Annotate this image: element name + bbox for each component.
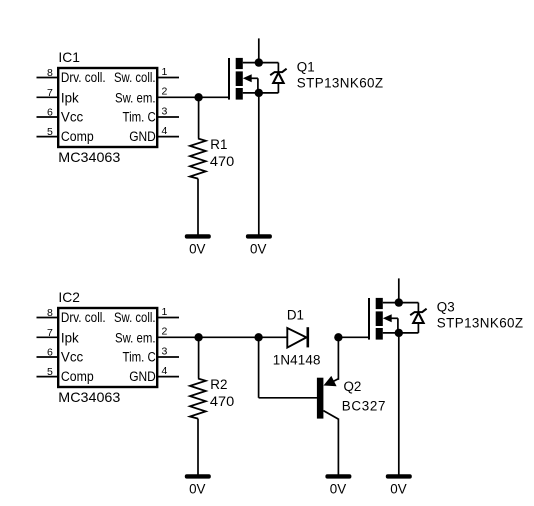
wire to Q2 base [259, 397, 317, 399]
svg-text:Sw. em.: Sw. em. [115, 330, 156, 345]
Q1 body arrow [243, 74, 252, 82]
svg-text:GND: GND [129, 129, 156, 144]
IC2 pin 1 lead [158, 317, 180, 319]
IC2 pin 4 lead [158, 376, 180, 378]
svg-text:IC1: IC1 [58, 50, 79, 65]
Q3 drain stub wire [398, 278, 400, 302]
node B junction (IC2 pin2 / R2) [194, 333, 202, 341]
svg-text:470: 470 [210, 394, 234, 409]
svg-text:GND: GND [129, 369, 156, 384]
body diode (zener) of Q3 [410, 303, 426, 333]
resistor R1 [190, 139, 206, 179]
svg-text:6: 6 [47, 107, 53, 119]
svg-text:Q1: Q1 [297, 59, 315, 74]
pin 4 lead [158, 136, 180, 138]
IC2 pin 7 lead [37, 336, 59, 338]
pin 8 lead [37, 77, 59, 79]
wire Q1 source to ground [258, 93, 260, 235]
ground bar (Q2) [325, 474, 351, 478]
svg-text:3: 3 [162, 105, 168, 117]
svg-text:6: 6 [47, 347, 53, 359]
transistor Q2 (PNP BC327) [317, 337, 339, 474]
svg-text:5: 5 [47, 126, 53, 138]
svg-text:Drv. coll.: Drv. coll. [61, 70, 106, 85]
IC U2: IC2 MC34063 box [58, 308, 157, 387]
svg-text:4: 4 [162, 365, 168, 377]
diode D1 [287, 327, 308, 347]
ground bar (R2) [185, 474, 211, 478]
Q1 source wire [243, 92, 279, 94]
Q1 source channel bar [236, 88, 243, 100]
svg-text:Drv. coll.: Drv. coll. [61, 310, 106, 325]
svg-text:8: 8 [47, 67, 53, 79]
svg-text:Q3: Q3 [437, 299, 455, 314]
Q3 gate plate [368, 298, 370, 340]
Q3 source junction [395, 329, 403, 337]
pin 6 lead [37, 116, 59, 118]
svg-text:Comp: Comp [61, 129, 94, 144]
svg-text:R1: R1 [210, 137, 227, 152]
svg-text:STP13NK60Z: STP13NK60Z [437, 315, 523, 330]
IC2 pin 6 lead [37, 356, 59, 358]
svg-text:4: 4 [162, 125, 168, 137]
wire R1 to ground [197, 179, 199, 235]
Q2 emitter arrow [324, 376, 337, 386]
Q1 drain channel bar [236, 58, 243, 69]
ground bar (Q3 source) [386, 474, 412, 478]
svg-text:2: 2 [162, 86, 168, 98]
svg-text:Ipk: Ipk [61, 330, 79, 345]
Q2 collector [323, 411, 338, 420]
svg-text:1: 1 [162, 306, 168, 318]
pin 3 lead [158, 116, 180, 118]
svg-text:1: 1 [162, 66, 168, 78]
svg-text:BC327: BC327 [342, 398, 386, 413]
Q1 drain stub wire [258, 38, 260, 62]
IC2 pin 8 lead [37, 317, 59, 319]
svg-text:D1: D1 [287, 307, 304, 322]
svg-text:MC34063: MC34063 [58, 389, 120, 405]
Q1 gate plate [228, 58, 230, 100]
svg-text:7: 7 [47, 327, 53, 339]
svg-text:0V: 0V [189, 241, 205, 256]
Q1 drain wire [243, 62, 279, 64]
wire Q3 source to ground [398, 333, 400, 475]
svg-text:0V: 0V [189, 481, 205, 496]
Q3 drain channel bar [376, 298, 383, 309]
svg-text:Vcc: Vcc [61, 110, 84, 125]
svg-text:Vcc: Vcc [61, 350, 84, 365]
Q3 drain wire [383, 302, 419, 304]
pin 7 lead [37, 96, 59, 98]
resistor R2 [190, 379, 206, 419]
node D junction (D1 cathode / Q2 emitter / Q3 gate) [334, 333, 342, 341]
Q3 drain junction [395, 298, 403, 306]
svg-text:STP13NK60Z: STP13NK60Z [297, 75, 383, 90]
wire node A down to R1 [198, 97, 200, 138]
wire node C down to Q2 base [258, 337, 260, 398]
wire node B down to R2 [198, 337, 200, 378]
svg-text:R2: R2 [210, 377, 227, 392]
svg-text:3: 3 [162, 345, 168, 357]
svg-text:Tim. C: Tim. C [123, 110, 157, 125]
svg-text:MC34063: MC34063 [58, 149, 120, 165]
svg-text:Sw. coll.: Sw. coll. [114, 70, 156, 85]
Q1 source junction [255, 89, 263, 97]
svg-text:0V: 0V [330, 481, 346, 496]
Q1 body channel bar [236, 71, 243, 86]
wire R2 to ground [197, 419, 199, 475]
node A junction (pin2 / R1 / Q1 gate) [194, 93, 202, 101]
svg-text:8: 8 [47, 307, 53, 319]
Q3 body arrow [383, 314, 392, 322]
svg-text:Sw. em.: Sw. em. [115, 90, 156, 105]
wire node D to Q3 gate [338, 336, 369, 338]
node C junction (D1 anode / Q2 base branch) [254, 333, 262, 341]
svg-text:470: 470 [210, 154, 234, 169]
svg-text:2: 2 [162, 326, 168, 338]
svg-text:Q2: Q2 [344, 379, 362, 394]
Q1 drain junction [255, 58, 263, 66]
ground bar (Q1 source) [246, 234, 272, 238]
svg-text:Ipk: Ipk [61, 90, 79, 105]
IC2 pin 2 lead / wire to node B [158, 336, 288, 338]
svg-text:Comp: Comp [61, 369, 94, 384]
Q3 source wire [383, 332, 419, 334]
svg-text:IC2: IC2 [58, 290, 79, 305]
ground bar (R1) [185, 234, 211, 238]
svg-text:0V: 0V [250, 241, 266, 256]
IC2 pin 3 lead [158, 356, 180, 358]
pin 1 lead [158, 77, 180, 79]
Q3 body channel bar [376, 311, 383, 326]
svg-text:1N4148: 1N4148 [273, 353, 321, 368]
pin 2 lead / wire to node A [158, 96, 230, 98]
svg-text:Tim. C: Tim. C [123, 350, 157, 365]
Q2 base bar [317, 378, 324, 419]
body diode (zener) of Q1 [270, 63, 286, 93]
transistor Q3 (MOSFET) [369, 298, 398, 340]
svg-text:0V: 0V [390, 481, 406, 496]
pin 5 lead [37, 136, 59, 138]
svg-text:7: 7 [47, 87, 53, 99]
svg-text:5: 5 [47, 366, 53, 378]
IC U1: IC1 MC34063 box [58, 68, 157, 147]
svg-text:Sw. coll.: Sw. coll. [114, 310, 156, 325]
transistor Q1 (MOSFET) [229, 58, 258, 100]
Q3 source channel bar [376, 328, 383, 340]
IC2 pin 5 lead [37, 376, 59, 378]
Q2 emitter wire from node D [337, 337, 339, 380]
